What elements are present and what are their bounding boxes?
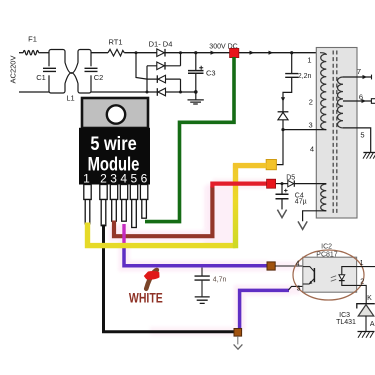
svg-text:1: 1 xyxy=(83,172,90,186)
pin6 connector square xyxy=(371,99,375,104)
svg-text:6: 6 xyxy=(141,172,148,186)
inductor L1 right winding loop xyxy=(78,50,91,94)
diode D1 xyxy=(157,49,165,57)
diode D5 xyxy=(288,180,294,186)
bridge line 3 xyxy=(147,78,181,80)
svg-text:2: 2 xyxy=(100,172,107,186)
svg-text:TL431: TL431 xyxy=(336,319,356,326)
module leg 3 xyxy=(110,185,117,222)
wire: pin1 stub into coil xyxy=(320,53,326,55)
direction arrow pin6 xyxy=(362,99,367,103)
IC3 TL431 symbol xyxy=(357,304,375,309)
svg-text:WHITE: WHITE xyxy=(129,290,163,306)
transformer core dashed lines xyxy=(333,51,337,216)
svg-text:4: 4 xyxy=(296,261,300,268)
capacitor C4 xyxy=(281,184,283,194)
direction arrow on rail 1 xyxy=(211,51,216,55)
wire: pin6 line xyxy=(343,100,371,102)
svg-text:47µ: 47µ xyxy=(295,199,307,206)
svg-text:4,7n: 4,7n xyxy=(213,276,227,283)
svg-text:5 wire: 5 wire xyxy=(90,133,136,154)
module: black body xyxy=(79,128,150,185)
wire: output winding top to D5 xyxy=(295,183,327,185)
wire: rail RT1 to transformer xyxy=(124,52,322,54)
wire: bottom rail choke to C3 ground xyxy=(91,91,198,93)
direction arrow on rail 3 xyxy=(269,51,274,55)
svg-text:D5: D5 xyxy=(286,175,295,182)
node: red output square xyxy=(267,179,276,188)
svg-text:2: 2 xyxy=(360,279,364,286)
junction dot pin3 node xyxy=(281,128,284,131)
wire: AC live top rail from input to fuse xyxy=(19,52,23,54)
freehand red arrow annotation xyxy=(146,272,154,289)
bridge right vertical bottom xyxy=(180,79,182,92)
wire: red to output square xyxy=(212,184,267,188)
wire: purple from pin4 to opto input xyxy=(124,246,268,266)
wire: thin link square to opto pin4 xyxy=(275,265,303,267)
svg-text:L1: L1 xyxy=(66,94,74,103)
ground below C3 xyxy=(195,92,197,100)
wire: yellow from module pin1 to transformer pin3 tap xyxy=(88,223,236,246)
svg-text:IC3: IC3 xyxy=(339,312,350,319)
svg-text:5: 5 xyxy=(360,130,364,139)
ground arrow (C4) xyxy=(277,210,286,218)
svg-text:2,2n: 2,2n xyxy=(298,73,312,80)
svg-text:F1: F1 xyxy=(28,35,37,44)
earth ground TL431 (hatched) xyxy=(358,331,375,333)
ground below 4.7n xyxy=(195,297,210,304)
phototransistor inside (left) xyxy=(303,267,314,272)
svg-text:D1- D4: D1- D4 xyxy=(149,39,173,48)
bridge line 2 xyxy=(147,65,181,67)
svg-text:AC220V: AC220V xyxy=(9,56,18,84)
diode D3 xyxy=(158,75,166,83)
wire: pin5 line to earth xyxy=(343,128,371,152)
earth ground pin5 (hatched) xyxy=(363,152,375,154)
module leg 5 xyxy=(130,185,137,228)
thermistor RT1 xyxy=(108,49,124,56)
wire: purple from opto pin3 down to ground node xyxy=(240,290,289,329)
svg-text:3: 3 xyxy=(297,285,301,292)
module leg 1 xyxy=(84,185,91,224)
diode snubber (pointing up) xyxy=(278,111,289,113)
wire: pin7 line xyxy=(343,76,372,78)
node: maroon square at opto input xyxy=(267,262,275,270)
capacitor C2 (on right loop edge) xyxy=(88,66,94,75)
svg-text:3: 3 xyxy=(309,120,313,129)
wire: AC neutral bottom rail xyxy=(19,91,49,93)
wire: magenta top of module pin4 wire xyxy=(122,224,125,248)
module leg 4 xyxy=(120,185,127,222)
bridge left vertical A with hop xyxy=(136,53,147,79)
diode D4 xyxy=(158,88,166,96)
direction arrow on rail 2 xyxy=(250,51,255,55)
wire: opto pin2 down to TL431 xyxy=(357,285,367,303)
C4 plus sign xyxy=(284,189,288,193)
svg-text:3: 3 xyxy=(110,172,117,186)
module leg 6 xyxy=(140,185,147,219)
module leg 2 xyxy=(100,185,107,226)
fuse F1 xyxy=(23,51,38,55)
wire: transformer pin3 line xyxy=(283,129,326,131)
svg-text:K: K xyxy=(367,295,372,302)
svg-text:5: 5 xyxy=(130,172,137,186)
optocoupler hand-drawn ellipse xyxy=(293,250,364,300)
wire: output winding bottom to ground xyxy=(303,211,327,222)
junction dots bridge xyxy=(135,51,138,54)
wire: fuse to input filter xyxy=(39,52,49,54)
svg-text:A: A xyxy=(370,321,375,328)
svg-text:7: 7 xyxy=(357,67,361,76)
ground arrow below node xyxy=(237,336,239,344)
bridge right vertical top xyxy=(180,53,182,66)
node: 300V DC red square xyxy=(230,48,239,57)
wire: top rail from choke through RT1 and bridge to transformer pin1 xyxy=(91,52,108,54)
svg-text:RT1: RT1 xyxy=(108,38,122,47)
transformer output winding (lower left) xyxy=(321,184,327,211)
module: TO-220 tab xyxy=(82,98,148,128)
direction arrow pin7 xyxy=(363,75,368,79)
wire: thin link opto pin3 xyxy=(289,286,303,290)
capacitor 2.2n xyxy=(291,53,293,73)
diode D2 xyxy=(157,62,165,70)
wire: opto pin1 out to right edge xyxy=(357,266,375,268)
LED inside (right) xyxy=(342,267,357,275)
transformer secondary winding (right, pins 7-5) xyxy=(338,77,343,128)
L1 core coupling arcs xyxy=(64,63,66,84)
svg-text:1: 1 xyxy=(307,56,311,65)
wire: green from 300V square to module pin6 xyxy=(145,57,234,222)
snubber branch junction dot xyxy=(290,51,293,54)
wire: maroon from module pin3 xyxy=(114,187,212,237)
module: mounting hole xyxy=(107,105,125,123)
wire: black from module pin2 to secondary ground node xyxy=(104,225,235,332)
capacitor 4.7n xyxy=(201,268,203,276)
transformer primary winding (left, pins 1-3) xyxy=(321,54,327,130)
bridge left vertical B xyxy=(146,66,148,92)
junction dot C3 top xyxy=(194,51,197,54)
svg-text:6: 6 xyxy=(359,92,363,101)
svg-text:C1: C1 xyxy=(36,73,46,82)
svg-text:4: 4 xyxy=(310,144,314,153)
svg-text:C2: C2 xyxy=(94,73,104,82)
light arrows xyxy=(331,276,336,281)
op-amp U1: optocoupler IC2 PC817 body xyxy=(303,257,357,292)
capacitor C1 (on left loop edge) xyxy=(46,66,52,75)
wire: diode to pin3 node and down to yellow tap xyxy=(277,120,284,165)
direction arrow snubber down xyxy=(281,97,285,101)
C3 plus sign xyxy=(199,66,203,70)
transformer T1 body xyxy=(316,48,357,219)
svg-text:1: 1 xyxy=(360,260,364,267)
capacitor C3 xyxy=(195,53,197,70)
svg-text:2: 2 xyxy=(309,97,313,106)
junction dot C3 bottom xyxy=(194,90,198,94)
svg-text:C3: C3 xyxy=(206,68,216,77)
node: yellow output square xyxy=(266,160,276,170)
ground arrow (output winding) xyxy=(298,221,307,229)
junction dot C4 top xyxy=(281,182,284,185)
inductor L1 common-mode choke left winding loop xyxy=(49,50,65,94)
svg-text:4: 4 xyxy=(120,172,127,186)
wire: red square to D5 xyxy=(276,183,288,185)
node: maroon square ground node xyxy=(234,329,242,337)
